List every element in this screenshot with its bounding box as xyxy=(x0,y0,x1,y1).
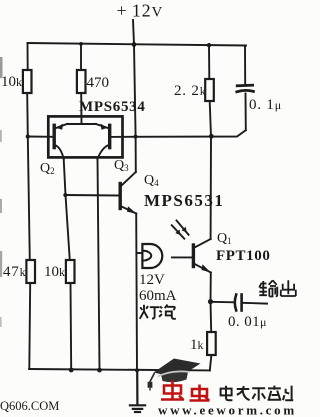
wire left column xyxy=(27,43,29,70)
node +12V rail junction xyxy=(132,42,137,47)
wire Q1 collector up to 2.2k xyxy=(210,136,212,239)
lamp filament bump xyxy=(142,251,151,261)
watermark graduation cap xyxy=(148,359,201,391)
resistor R6 1k xyxy=(207,332,216,355)
wire Q2 collector column to bottom 10k and bus xyxy=(64,159,70,261)
capacitor C1 0.1u xyxy=(237,85,254,92)
wire emitters top bar inside box xyxy=(67,123,96,125)
svg-text:2. 2k: 2. 2k xyxy=(174,83,207,99)
svg-text:www.eeworm.com: www.eeworm.com xyxy=(158,403,297,417)
svg-text:0. 1μ: 0. 1μ xyxy=(249,97,282,113)
svg-text:1k: 1k xyxy=(190,337,204,353)
svg-text:MPS6534: MPS6534 xyxy=(79,99,146,115)
wire Q2 base lead xyxy=(28,136,53,138)
transistor Q3 (PNP right) xyxy=(96,124,110,159)
resistor R1 10k (top left) xyxy=(23,70,32,93)
wire Q4 base lead xyxy=(65,194,118,197)
svg-text:10k: 10k xyxy=(44,264,65,280)
scan edge artifacts xyxy=(0,57,3,327)
wire Q3 collector column to bus xyxy=(98,159,100,370)
resistor R3 2.2k xyxy=(205,79,214,101)
node rail x 2.2k junction xyxy=(207,43,211,47)
IC outline U1 MPS6534 package box xyxy=(48,116,122,157)
label lamp dengpao (chinese) xyxy=(140,305,176,319)
resistor R4 10k (bottom) xyxy=(66,260,75,283)
svg-text:12V: 12V xyxy=(139,272,165,288)
wire 2.2k column xyxy=(208,45,210,79)
node bus x Q3 collector column xyxy=(97,368,102,373)
wire top +12V rail xyxy=(28,43,247,46)
svg-text:0. 01μ: 0. 01μ xyxy=(228,314,267,330)
+12V supply lead xyxy=(133,20,134,44)
node cap line x Q1 collector column xyxy=(209,134,214,139)
watermark dianzi xiazaizhan black chars xyxy=(221,386,294,401)
wire Q4 emitter / lamp column to ground bus xyxy=(135,214,138,371)
wire col E +12V to Q4 collector xyxy=(134,44,136,136)
wire output tap to C2 xyxy=(211,301,234,304)
wire C2 to output terminal xyxy=(242,302,267,305)
node output tap xyxy=(208,299,213,304)
node Q4 base tap xyxy=(63,193,67,197)
Q1 base stub xyxy=(172,256,192,258)
node bus x lamp column xyxy=(135,368,139,372)
svg-text:47k: 47k xyxy=(3,264,26,280)
transistor Q4 MPS6531 (NPN) xyxy=(120,172,136,214)
svg-text:60mA: 60mA xyxy=(139,288,177,304)
light arrows xyxy=(172,221,189,239)
svg-text:470: 470 xyxy=(87,75,110,91)
wire node down through 1k to bus xyxy=(210,302,213,332)
lamp DS1 12V 60mA body xyxy=(142,244,162,268)
node Q2 base junction xyxy=(26,134,30,138)
svg-text:MPS6531: MPS6531 xyxy=(144,191,224,210)
resistor R2 470 xyxy=(77,70,86,93)
lamp DS1 12V 60mA stub xyxy=(136,252,142,254)
capacitor C2 0.01u xyxy=(235,295,242,311)
resistor R5 47k xyxy=(26,260,35,283)
node cap line x col-E xyxy=(134,135,138,139)
node rail x 470 junction xyxy=(79,42,83,46)
node bus x 10k column xyxy=(69,368,74,373)
ground symbol xyxy=(130,370,145,412)
svg-text:FPT100: FPT100 xyxy=(216,248,270,264)
wire Q1 emitter down to node xyxy=(210,273,212,302)
watermark chongchong red chars xyxy=(161,381,210,401)
label output shuchu (chinese) xyxy=(259,280,296,296)
wire Q3 base / cap bottom horizontal xyxy=(111,130,246,137)
svg-text:Q606.COM: Q606.COM xyxy=(0,399,59,413)
transistor Q2 (PNP left) xyxy=(54,124,67,159)
wire ground bus xyxy=(29,369,210,370)
transistor Q1 FPT100 (photo NPN) xyxy=(172,239,211,273)
wire 0.1u column xyxy=(244,45,246,84)
svg-text:10k: 10k xyxy=(1,74,22,90)
wire 470 column xyxy=(80,45,82,70)
